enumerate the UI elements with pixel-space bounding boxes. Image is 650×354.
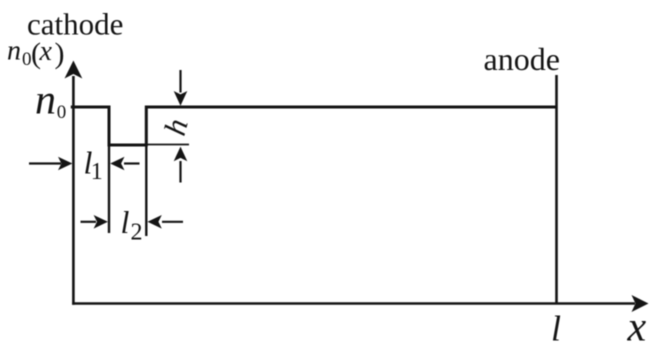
svg-text:2: 2	[131, 220, 143, 246]
l2 dimension left arrow head	[94, 215, 108, 229]
h dimension down-arrow head	[174, 91, 188, 106]
density profile n0(x) step line	[71, 107, 558, 145]
svg-text:x: x	[39, 36, 53, 67]
h dimension up-arrow shaft	[179, 161, 181, 183]
thin reference line for h	[147, 144, 189, 146]
y-axis	[72, 76, 75, 305]
l1 dimension left arrow head	[58, 157, 72, 171]
svg-text:l: l	[551, 309, 561, 349]
label n0(x)	[7, 36, 65, 71]
l2 dimension right arrow head	[148, 215, 162, 229]
svg-text:0: 0	[57, 102, 67, 123]
svg-text:n: n	[35, 78, 56, 124]
svg-text:): )	[55, 37, 65, 70]
h dimension down-arrow shaft	[179, 70, 181, 93]
svg-text:1: 1	[91, 159, 103, 185]
anode line	[555, 75, 558, 304]
svg-text:n: n	[7, 36, 21, 67]
svg-text:l: l	[121, 204, 130, 240]
l2 dimension right arrow shaft	[162, 221, 183, 223]
svg-text:anode: anode	[484, 41, 560, 77]
extension line at x=l1+l2	[145, 145, 147, 236]
extension line at x=l1	[108, 145, 110, 233]
x-axis	[72, 302, 635, 305]
label n0 on axis	[35, 78, 66, 124]
h dimension up-arrow head	[174, 147, 188, 162]
l2 dimension left arrow shaft	[81, 221, 97, 223]
l1 dimension right arrow head	[110, 157, 124, 171]
label l2	[121, 204, 143, 246]
l1 dimension left arrow shaft	[29, 162, 61, 164]
label l1	[84, 145, 103, 186]
x-axis arrowhead	[632, 295, 649, 312]
l1 dimension right arrow shaft	[124, 162, 140, 164]
svg-text:h: h	[157, 115, 195, 139]
svg-text:x: x	[627, 305, 647, 351]
y-axis arrowhead	[65, 61, 83, 79]
